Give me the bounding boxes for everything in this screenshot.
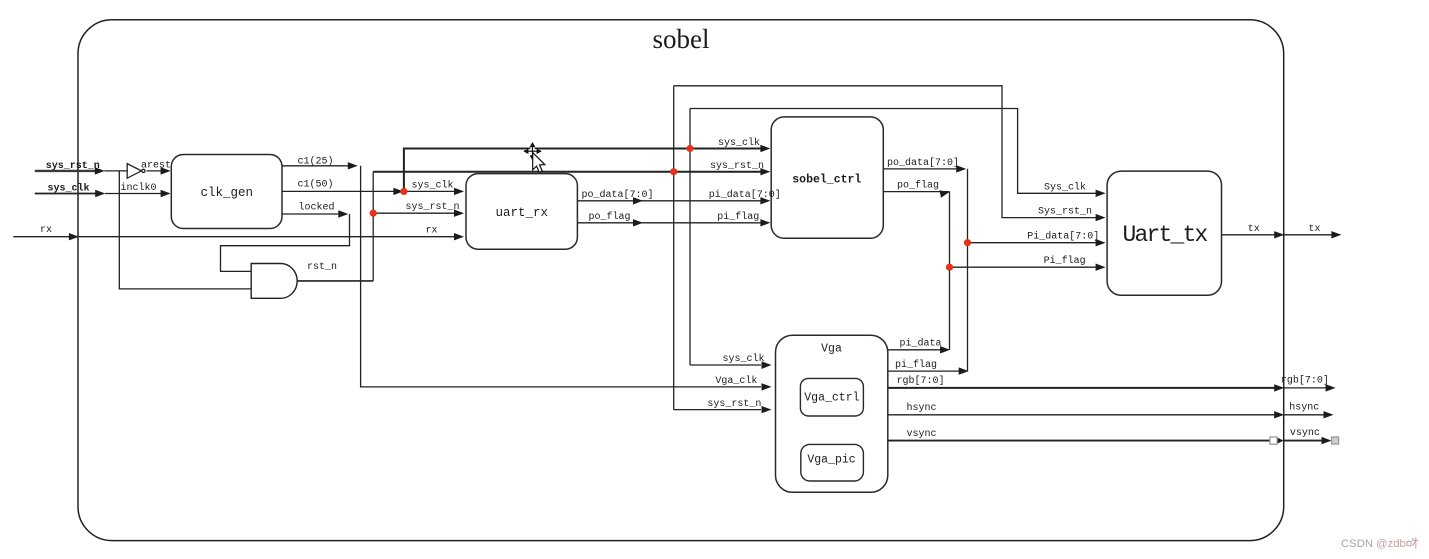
svg-text:sys_clk: sys_clk	[47, 182, 89, 194]
svg-text:sys_clk: sys_clk	[722, 353, 764, 365]
wire sys_rst_n distribution vertical	[673, 86, 675, 410]
wire c1(25) vertical down	[361, 166, 761, 387]
svg-text:vsync: vsync	[906, 429, 936, 440]
arrowhead c1(25)	[348, 162, 358, 169]
wire sys_clk stub to clk_gen inclk0	[105, 193, 163, 195]
module Vga_pic	[801, 444, 864, 481]
wire po_data vertical	[967, 169, 969, 371]
arrowhead pi_flag to vertical	[959, 367, 969, 374]
arrowhead Sys_clk into Uart_tx	[1096, 190, 1106, 197]
cursor pointer icon	[533, 153, 545, 173]
arrowhead sys_rst_n into uart_rx	[454, 210, 464, 217]
wire c1(25) from clk_gen	[282, 165, 350, 167]
svg-text:po_data[7:0]: po_data[7:0]	[581, 189, 653, 201]
wire tx inside	[1222, 234, 1277, 236]
wire rst_n vertical riser	[372, 172, 374, 281]
svg-text:inclk0: inclk0	[120, 182, 156, 194]
svg-text:rx: rx	[40, 225, 52, 236]
svg-text:pi_data[7:0]: pi_data[7:0]	[709, 189, 781, 201]
svg-text:sys_clk: sys_clk	[411, 180, 453, 192]
arrowhead rgb at border	[1274, 384, 1284, 391]
wire sys_rst_n horizontal to sobel_ctrl	[373, 171, 760, 173]
junction rst_n to uart_rx	[370, 210, 377, 217]
arrowhead sys_rst_n into Vga	[762, 406, 772, 413]
svg-text:uart_rx: uart_rx	[495, 206, 548, 220]
watermark glyph ya	[1407, 538, 1418, 549]
wire sys_clk top loop to Uart_tx	[690, 109, 1097, 194]
wire po_flag uart_rx to sobel_ctrl	[577, 222, 760, 224]
arrowhead arest into clk_gen	[161, 167, 171, 174]
svg-text:pi_data: pi_data	[899, 337, 941, 349]
svg-text:sys_rst_n: sys_rst_n	[405, 202, 459, 213]
svg-text:pi_flag: pi_flag	[895, 359, 937, 371]
wire c1(50) junction to uart_rx sys_clk	[404, 190, 456, 192]
svg-text:c1(25): c1(25)	[297, 155, 333, 167]
svg-text:Pi_data[7:0]: Pi_data[7:0]	[1027, 231, 1099, 243]
svg-text:sobel: sobel	[653, 24, 710, 54]
arrowhead vsync outer	[1322, 437, 1332, 444]
wire hsync inside	[888, 414, 1276, 416]
junction Pi_data	[964, 239, 971, 246]
wire Pi_flag branch to Uart_tx	[950, 266, 1098, 268]
wire rgb inside	[888, 387, 1276, 389]
wire po_data from sobel_ctrl	[883, 168, 958, 170]
arrowhead Vga_clk into Vga	[762, 383, 772, 390]
arrowhead hsync outer	[1324, 411, 1334, 418]
wire rx input	[13, 236, 71, 238]
svg-text:sobel_ctrl: sobel_ctrl	[792, 174, 861, 187]
wire po_flag from sobel_ctrl	[883, 191, 949, 193]
module uart_rx	[466, 174, 577, 250]
wire sys_clk to Vga	[690, 364, 761, 366]
wire sys_rst_n input stub (highlighted)	[35, 170, 97, 172]
svg-text:Vga_clk: Vga_clk	[715, 375, 757, 387]
svg-text:Pi_flag: Pi_flag	[1044, 255, 1086, 267]
arrowhead sys_clk port	[95, 190, 105, 197]
svg-text:sys_clk: sys_clk	[718, 137, 760, 149]
wire pi_flag from Vga	[888, 370, 961, 372]
svg-text:hsync: hsync	[906, 402, 936, 414]
wire vsync outside	[1284, 440, 1324, 442]
svg-text:locked: locked	[298, 202, 334, 214]
wire sys_rst_n stub to buffer	[104, 170, 127, 172]
arrowhead sys_clk into uart_rx	[454, 188, 464, 195]
svg-text:rst_n: rst_n	[307, 262, 337, 273]
wire Pi_data branch to Uart_tx	[968, 242, 1098, 244]
svg-text:Vga_ctrl: Vga_ctrl	[804, 392, 859, 405]
buffer (clock input buffer)	[127, 164, 145, 179]
svg-text:tx: tx	[1308, 224, 1320, 235]
svg-text:sys_rst_n: sys_rst_n	[46, 161, 100, 172]
wire vsync inside	[888, 440, 1270, 442]
svg-text:tx: tx	[1248, 224, 1260, 235]
wire po_flag vertical	[949, 192, 951, 350]
arrowhead po_data mid	[633, 197, 643, 204]
svg-text:Sys_rst_n: Sys_rst_n	[1038, 207, 1092, 218]
svg-text:sys_rst_n: sys_rst_n	[710, 161, 764, 172]
outer module boundary sobel	[78, 20, 1284, 541]
svg-text:arest: arest	[141, 161, 171, 172]
wire po_data uart_rx to sobel_ctrl	[577, 200, 760, 202]
wire rst_n branch to uart_rx sys_rst_n	[373, 212, 456, 214]
junction c1(50)/sys_clk	[400, 188, 407, 195]
module Vga	[776, 335, 888, 492]
svg-text:c1(50): c1(50)	[297, 179, 333, 191]
svg-text:rgb[7:0]: rgb[7:0]	[896, 375, 944, 387]
arrowhead po_data to vertical	[956, 165, 966, 172]
wire rst_n from and gate output	[297, 280, 373, 282]
arrowhead rgb outer	[1326, 384, 1336, 391]
wire rgb outside	[1284, 387, 1328, 389]
wire sys_rst_n top loop to Uart_tx	[674, 86, 1097, 218]
arrowhead tx outer	[1331, 231, 1341, 238]
arrowhead Pi_flag into Uart_tx	[1096, 264, 1106, 271]
svg-text:rx: rx	[425, 226, 437, 237]
svg-text:sys_rst_n: sys_rst_n	[707, 399, 761, 410]
svg-text:pi_flag: pi_flag	[717, 211, 759, 223]
svg-text:clk_gen: clk_gen	[200, 186, 253, 200]
arrowhead c1(50) at junction	[393, 188, 403, 195]
wire hsync outside	[1284, 414, 1326, 416]
junction sys_clk distribution	[686, 145, 693, 152]
wire sys_clk distribution vertical	[689, 109, 691, 366]
arrowhead vsync at border	[1277, 437, 1284, 444]
wire c1(50) from clk_gen	[282, 190, 396, 192]
svg-text:Uart_tx: Uart_tx	[1122, 222, 1207, 248]
selection handle vsync outer (gray)	[1332, 437, 1339, 444]
svg-text:po_flag: po_flag	[588, 211, 630, 223]
arrowhead Sys_rst_n into Uart_tx	[1096, 214, 1106, 221]
module clk_gen	[171, 155, 282, 229]
svg-text:po_flag: po_flag	[897, 180, 939, 192]
arrowhead rx port	[69, 233, 79, 240]
arrowhead sys_rst_n port	[95, 167, 105, 174]
module sobel_ctrl	[771, 117, 883, 238]
selection handle vsync inner (white)	[1270, 437, 1277, 444]
arrowhead sys_clk into sobel_ctrl	[760, 145, 770, 152]
wire tx outside	[1284, 234, 1333, 236]
svg-text:vsync: vsync	[1290, 428, 1320, 439]
svg-text:po_data[7:0]: po_data[7:0]	[887, 157, 959, 169]
svg-text:hsync: hsync	[1289, 401, 1319, 413]
svg-text:Vga: Vga	[821, 343, 842, 356]
arrowhead pi_data into sobel_ctrl	[760, 197, 770, 204]
arrowhead locked	[338, 210, 348, 217]
svg-text:Vga_pic: Vga_pic	[807, 454, 855, 467]
wire sys_rst_n to Vga	[674, 409, 761, 411]
svg-text:rgb[7:0]: rgb[7:0]	[1281, 374, 1329, 386]
wire rx to uart_rx	[79, 236, 456, 238]
module Vga_ctrl	[800, 378, 863, 416]
arrowhead pi_flag into sobel_ctrl	[760, 219, 770, 226]
wire sys_clk riser to distribution	[404, 149, 761, 192]
junction Pi_flag	[946, 264, 953, 271]
arrowhead tx at border	[1274, 231, 1284, 238]
svg-text:CSDN @zdb: CSDN @zdb	[1341, 538, 1406, 550]
arrowhead po_flag corner diagonal	[939, 190, 949, 198]
arrowhead Pi_data into Uart_tx	[1096, 239, 1106, 246]
svg-text:Sys_clk: Sys_clk	[1044, 181, 1086, 193]
wire buffer to clk_gen arest	[147, 170, 164, 172]
and gate (reset sync)	[251, 264, 297, 299]
arrowhead inclk0 into clk_gen	[161, 190, 171, 197]
junction sys_rst_n distribution	[670, 168, 677, 175]
arrowhead sys_rst_n into sobel_ctrl	[760, 168, 770, 175]
arrowhead hsync at border	[1274, 411, 1284, 418]
module Uart_tx	[1107, 171, 1221, 295]
arrowhead po_flag mid	[633, 219, 643, 226]
arrowhead pi_data to vertical	[940, 346, 950, 353]
wire sys_rst_n branch down to and gate	[119, 171, 252, 289]
cursor move icon	[525, 144, 539, 158]
arrowhead rx into uart_rx	[454, 233, 464, 240]
wire sys_clk input stub	[35, 193, 97, 195]
arrowhead sys_clk into Vga	[762, 361, 772, 369]
wire locked feedback to and gate	[221, 214, 350, 271]
wire pi_data from Vga	[888, 349, 942, 351]
wire locked from clk_gen	[282, 213, 341, 215]
